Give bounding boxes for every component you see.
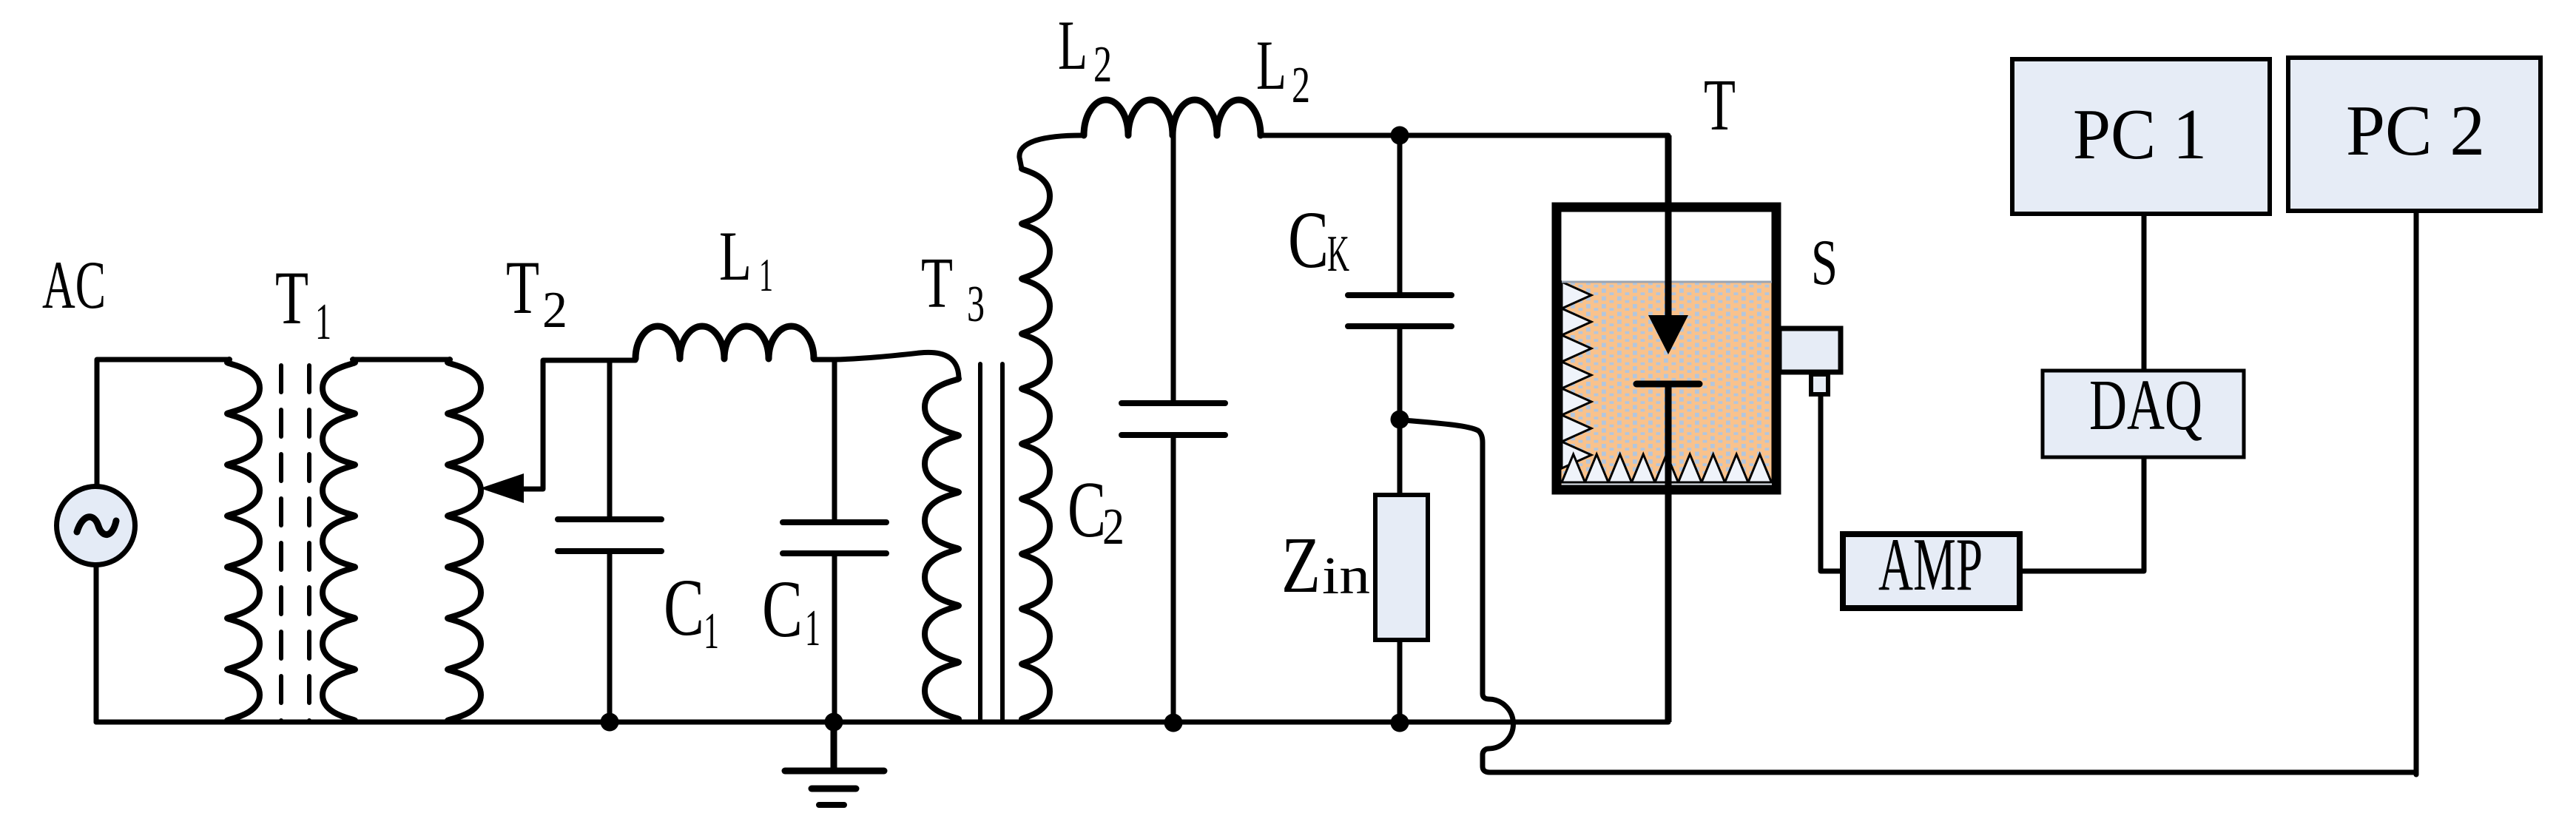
svg-text:C: C bbox=[664, 562, 704, 652]
wire ground lead bbox=[831, 722, 837, 771]
wire hop from CK node over bus to lower bus bbox=[1404, 420, 2416, 772]
capacitor C1a plates bbox=[558, 519, 661, 551]
transformer T3 primary coil bbox=[925, 379, 959, 719]
transformer T1 secondary coil bbox=[323, 360, 355, 721]
wire C1a lead top bbox=[607, 360, 613, 519]
svg-text:S: S bbox=[1811, 227, 1838, 299]
transformer T1 dashed core bbox=[279, 365, 283, 721]
wire C1b lead bottom bbox=[832, 553, 837, 722]
svg-text:L: L bbox=[1256, 26, 1287, 104]
svg-text:2: 2 bbox=[1102, 499, 1125, 556]
wire bottom bus bbox=[96, 720, 1668, 725]
wire needle electrode lead bbox=[1665, 135, 1672, 318]
svg-text:in: in bbox=[1322, 546, 1370, 605]
wire T3 secondary top hook bbox=[1019, 135, 1082, 169]
svg-text:T: T bbox=[1704, 64, 1736, 146]
svg-text:C: C bbox=[1288, 195, 1329, 285]
svg-text:PC 2: PC 2 bbox=[2346, 91, 2485, 170]
node C: C2-bus junction bbox=[1164, 714, 1183, 732]
svg-text:C: C bbox=[1068, 466, 1106, 554]
wire CK lead bottom bbox=[1397, 326, 1403, 419]
wire CK lead top bbox=[1397, 135, 1403, 295]
sensor S tip box bbox=[1811, 374, 1828, 394]
PC 1 box bbox=[2012, 59, 2270, 214]
needle electrode arrow bbox=[1648, 315, 1688, 354]
ground bbox=[785, 771, 884, 805]
plane electrode bar bbox=[1636, 381, 1699, 388]
wire sensor stem bbox=[1821, 396, 1841, 571]
wire Zin lead top bbox=[1397, 419, 1403, 495]
svg-text:AC: AC bbox=[42, 247, 106, 323]
DAQ box bbox=[2043, 371, 2244, 457]
svg-text:C: C bbox=[762, 564, 803, 654]
capacitor C2 plates bbox=[1122, 403, 1225, 435]
wire T1 secondary to T2 top link bbox=[353, 357, 450, 362]
wire AMP to DAQ bbox=[2022, 459, 2144, 571]
coils group bbox=[227, 100, 1261, 721]
svg-text:1: 1 bbox=[805, 600, 820, 657]
svg-text:L: L bbox=[719, 217, 752, 295]
svg-text:3: 3 bbox=[967, 276, 985, 333]
test cell T body bbox=[1557, 207, 1776, 490]
wire DAQ to PC1 bbox=[2142, 216, 2147, 369]
test cell bottom strip bbox=[1562, 481, 1772, 485]
node B: C1b-ground junction bbox=[825, 713, 843, 732]
svg-text:T: T bbox=[275, 256, 308, 340]
test cell bottom serrations bbox=[1562, 454, 1772, 482]
AMP box bbox=[1843, 534, 2020, 608]
svg-text:2: 2 bbox=[1093, 36, 1112, 93]
svg-text:AMP: AMP bbox=[1878, 523, 1983, 607]
variac arrow bbox=[480, 473, 524, 503]
svg-text:K: K bbox=[1327, 226, 1349, 283]
PC 2 box bbox=[2288, 58, 2540, 211]
test cell liquid bbox=[1562, 282, 1772, 485]
wire C1a lead bottom bbox=[607, 551, 613, 722]
svg-text:L: L bbox=[1058, 6, 1088, 84]
autotransformer T2 coil bbox=[448, 360, 481, 721]
wire PC2 down bbox=[2414, 213, 2419, 775]
node E: L2-CK junction bbox=[1391, 127, 1409, 145]
node A: C1a-bus junction bbox=[601, 713, 619, 732]
transformer T3 secondary coil bbox=[1022, 169, 1050, 719]
transformer T1 primary coil bbox=[227, 360, 260, 721]
node D: Zin-bus junction bbox=[1391, 714, 1409, 732]
node F: CK-Zin junction bbox=[1391, 411, 1409, 429]
svg-text:2: 2 bbox=[1292, 57, 1310, 114]
svg-text:PC 1: PC 1 bbox=[2073, 95, 2207, 174]
wires group bbox=[96, 135, 2416, 775]
svg-text:T: T bbox=[921, 243, 953, 323]
svg-text:DAQ: DAQ bbox=[2089, 365, 2202, 445]
svg-text:1: 1 bbox=[315, 294, 331, 351]
inductor L2 second bbox=[1173, 100, 1261, 135]
wire L2 junction to C2 bbox=[1171, 135, 1176, 403]
wire C2 lead bottom bbox=[1171, 435, 1176, 722]
svg-text:1: 1 bbox=[759, 249, 773, 301]
svg-text:T: T bbox=[506, 246, 539, 330]
sensor S box bbox=[1779, 328, 1841, 372]
test cell left serrations bbox=[1562, 282, 1591, 468]
wire plane electrode lead bbox=[1665, 387, 1672, 722]
wire variac tap to L1 node bbox=[520, 360, 635, 489]
AC sine symbol bbox=[77, 517, 116, 535]
wire L2 to node and cell T bbox=[1260, 133, 1668, 138]
wire C1b lead top bbox=[832, 360, 837, 522]
liquid surface line bbox=[1562, 281, 1772, 283]
transformer T3 core lines bbox=[978, 364, 982, 719]
resistor Zin box bbox=[1375, 495, 1428, 640]
wire L1 to T3 bbox=[814, 352, 959, 379]
svg-text:2: 2 bbox=[542, 282, 567, 339]
svg-text:Z: Z bbox=[1281, 522, 1321, 610]
AC source circle bbox=[57, 487, 135, 565]
capacitor C1b plates bbox=[783, 522, 886, 553]
wire AC top lead bbox=[97, 360, 229, 486]
wire Zin lead bottom bbox=[1397, 640, 1403, 722]
wire AC bottom lead bbox=[94, 565, 99, 722]
capacitor CK plates bbox=[1348, 295, 1451, 326]
inductor L2 first bbox=[1084, 100, 1173, 135]
svg-text:1: 1 bbox=[704, 603, 719, 660]
inductor L1 bbox=[635, 326, 814, 359]
